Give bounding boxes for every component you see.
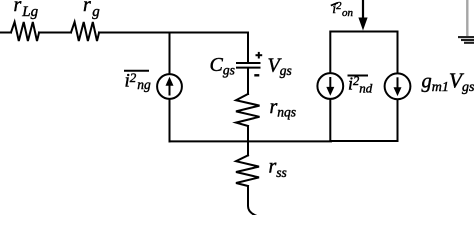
svg-text:i2ng: i2ng <box>125 70 152 92</box>
svg-text:Cgs: Cgs <box>210 54 235 78</box>
ground symbol top right <box>458 37 474 43</box>
wire r_ss to inductor clipped at bottom <box>248 186 257 216</box>
resistor r_ss <box>236 155 259 186</box>
svg-text:i2nd: i2nd <box>348 74 373 96</box>
arrow inside i2_nd pointing down <box>326 77 334 96</box>
gray supply wire top right <box>466 0 468 36</box>
wire below i2_ng to bottom rail <box>169 99 171 141</box>
minus polarity sign <box>254 74 259 76</box>
capacitor C_gs top plate <box>237 62 260 64</box>
label i2_on overline (tilted) <box>331 3 338 6</box>
svg-text:i2on: i2on <box>332 1 353 19</box>
arrow inside i2_ng pointing up <box>166 77 174 96</box>
svg-text:rnqs: rnqs <box>270 96 297 120</box>
svg-text:rss: rss <box>269 156 287 180</box>
resistor r_g <box>71 22 99 41</box>
arrow i2_on into box top <box>358 0 367 31</box>
wire between r_Lg and r_g <box>39 32 71 34</box>
label i2_nd overline <box>348 75 369 77</box>
label i2_ng overline <box>124 70 149 72</box>
svg-text:rLg: rLg <box>14 0 39 20</box>
wire top rail from r_g to node G corner <box>99 32 248 34</box>
resistor r_Lg <box>11 22 39 41</box>
plus polarity sign <box>256 52 263 59</box>
resistor r_nqs <box>236 94 260 126</box>
current source i2_nd circle <box>317 73 343 99</box>
wire r_nqs to bottom rail <box>247 126 249 141</box>
capacitor C_gs bottom plate <box>237 67 260 69</box>
arrow inside gm1Vgs pointing down <box>394 77 402 96</box>
wire C_gs to r_nqs <box>247 68 249 94</box>
current source i2_ng circle <box>157 74 182 99</box>
box drain side network <box>330 32 397 142</box>
wire gate branch down to i2ng source <box>169 33 171 75</box>
svg-text:gm1Vgs: gm1Vgs <box>422 68 474 95</box>
current source gm1Vgs circle <box>385 73 411 99</box>
svg-text:rg: rg <box>83 0 100 20</box>
svg-text:Vgs: Vgs <box>268 55 292 79</box>
wire corner down from top rail to C_gs <box>247 33 249 63</box>
wire source branch below bottom rail <box>247 141 249 155</box>
wire top rail left edge to r_Lg <box>0 32 11 34</box>
wire bottom rail <box>170 140 332 142</box>
